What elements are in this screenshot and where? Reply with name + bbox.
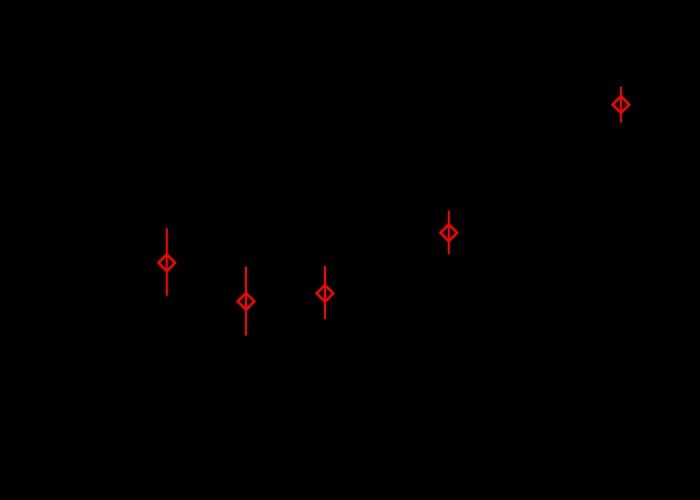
errorbar point 3	[317, 266, 334, 319]
errorbar point 4	[441, 211, 458, 255]
errorbar point 2	[238, 267, 255, 336]
errorbar point 1	[159, 228, 176, 295]
errorbar point 5	[613, 87, 630, 123]
